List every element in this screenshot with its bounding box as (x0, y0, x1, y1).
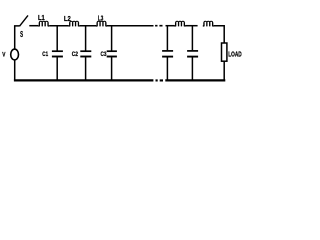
capacitor C4 plates (162, 50, 173, 52)
wire source top to switch pivot (15, 26, 20, 49)
inductor L5 (203, 21, 214, 26)
capacitor C4 top wire (166, 26, 168, 51)
capacitor C3 plates (107, 50, 117, 52)
svg-text:C3: C3 (101, 51, 107, 58)
bottom rail left segment (14, 79, 154, 81)
capacitor C2 bottom wire (85, 57, 87, 79)
svg-text:LOAD: LOAD (228, 51, 241, 58)
capacitor C1 plates (52, 50, 63, 52)
capacitor C5 top wire (191, 26, 193, 51)
wire switch contact to L1 (29, 25, 38, 27)
svg-text:S: S (20, 30, 23, 39)
top rail ellipsis dashes (155, 25, 162, 27)
wire L5 to right corner (214, 26, 225, 43)
svg-text:V: V (2, 52, 6, 59)
inductor L3 (96, 21, 107, 26)
capacitor C3 top wire (111, 26, 113, 51)
inductor L4 (175, 21, 186, 26)
wire L3 to ellipsis (node C at C3) (107, 25, 154, 27)
capacitor C5 plates (187, 50, 198, 52)
capacitor C5 bottom wire (191, 57, 193, 79)
resistor LOAD (222, 43, 227, 61)
inductor L1 (38, 21, 49, 26)
bottom rail ellipsis dashes (156, 79, 164, 81)
svg-text:C1: C1 (42, 51, 48, 58)
capacitor C2 plates (80, 50, 91, 52)
source V1 (11, 49, 19, 60)
switch S blade (20, 15, 29, 26)
wire L2 to L3 (node B at C2) (80, 25, 96, 27)
wire L4 to node D (185, 25, 197, 27)
inductor L2 (69, 21, 80, 26)
capacitor C1 bottom wire (56, 57, 58, 79)
capacitor C4 bottom wire (166, 57, 168, 79)
svg-text:C2: C2 (72, 51, 78, 58)
wire load bottom (223, 61, 225, 80)
wire L1 to L2 (node A at C1) (49, 25, 68, 27)
capacitor C1 top wire (56, 26, 58, 51)
capacitor C2 top wire (85, 26, 87, 51)
wire source bottom (14, 60, 16, 81)
svg-text:L1: L1 (38, 13, 45, 22)
wire ellipsis to inductor L4 (166, 25, 175, 27)
capacitor C3 bottom wire (111, 57, 113, 79)
bottom rail right segment (165, 79, 225, 81)
